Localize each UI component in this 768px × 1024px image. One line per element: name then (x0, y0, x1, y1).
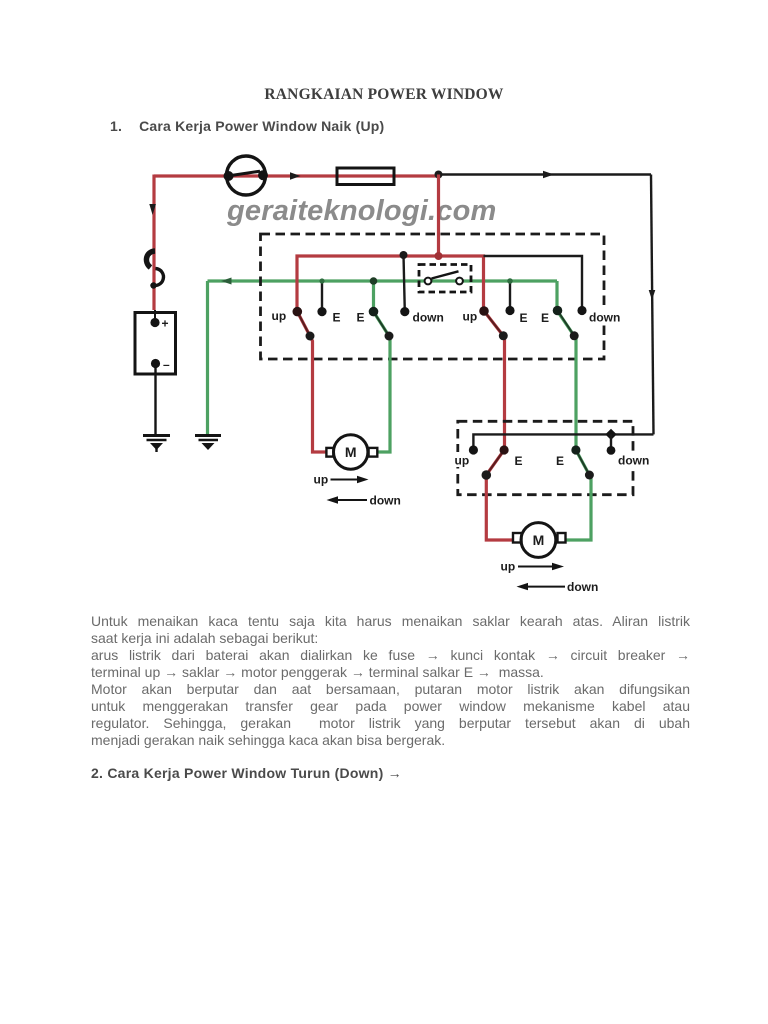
wire: red feed from battery to key switch (top horizontal) (154, 174, 439, 177)
svg-text:M: M (533, 532, 545, 548)
dash gap for label (630, 451, 638, 467)
svg-text:E: E (515, 454, 523, 468)
svg-text:up: up (314, 473, 329, 487)
label down with left arrow (motor M1) (327, 494, 401, 508)
key switch (kunci kontak) (224, 156, 269, 195)
svg-text:down: down (589, 311, 620, 325)
down contact (right group) (577, 306, 586, 315)
motor M2 right terminal (558, 533, 566, 543)
title (0, 86, 768, 104)
wire: black top horizontal to right (439, 173, 652, 175)
svg-text:E: E (357, 311, 365, 325)
heading 2 (91, 765, 402, 781)
dash gap for label (601, 308, 608, 325)
motor M1 right terminal (369, 448, 378, 457)
junction node at top feed split (435, 171, 443, 179)
motor M1 (334, 435, 368, 469)
fuse (337, 168, 394, 185)
motor M2 (521, 523, 556, 558)
svg-text:E: E (520, 311, 528, 325)
switch up panel 2: red arm (482, 445, 513, 540)
junction node red feed on bus (435, 252, 443, 260)
master switch box (dashed) (419, 265, 471, 293)
up contact (panel 2) (469, 445, 478, 454)
svg-text:up: up (501, 560, 516, 574)
junction node black on red bus (left down) (400, 251, 408, 259)
junction node (panel 2 down stub) (605, 429, 616, 451)
switch panel 1 (dashed) (261, 234, 605, 359)
wire: green ground vertical (206, 281, 209, 436)
switch panel 2 (dashed) (458, 421, 633, 494)
svg-text:down: down (618, 454, 649, 468)
battery (135, 310, 176, 374)
E contact stub (left group) (317, 278, 326, 316)
svg-text:down: down (413, 311, 444, 325)
ground (battery) (143, 436, 170, 453)
label up with right arrow (motor M2) (501, 560, 565, 574)
label up with right arrow (motor M1) (314, 473, 369, 487)
arrowhead down on right black vertical (649, 290, 656, 300)
wire: green bus horizontal (208, 279, 558, 282)
svg-text:E: E (541, 311, 549, 325)
wire: red bus in panel (297, 256, 484, 312)
svg-text:down: down (370, 494, 401, 508)
arrowhead down on left red wire (149, 204, 156, 215)
dash gap for label (455, 452, 462, 467)
motor M2 left terminal (513, 533, 522, 543)
paragraph text (91, 613, 690, 749)
down contact (panel 2) (607, 446, 616, 455)
svg-text:up: up (455, 454, 470, 468)
watermark geraiteknologi.com (227, 197, 497, 226)
wire: black right vertical (651, 175, 654, 435)
wire: red left vertical down to battery (152, 175, 155, 311)
down contact (left group) (400, 307, 409, 316)
svg-text:down: down (567, 580, 598, 594)
svg-text:up: up (463, 310, 478, 324)
circuit breaker (146, 251, 163, 289)
wire: black bus segment to right down contact (484, 256, 583, 311)
switch E left: green arm (369, 277, 394, 452)
label down with left arrow (motor M2) (517, 580, 599, 594)
wire: black feed inside panel 2 (473, 434, 653, 450)
switch E right: green arm (553, 281, 579, 450)
wire: red vertical feed to switch panel (437, 175, 440, 258)
svg-text:up: up (272, 309, 287, 323)
switch E panel 2: green arm (566, 445, 594, 540)
arrowhead right on red wire after key switch (290, 172, 301, 179)
svg-text:E: E (556, 454, 564, 468)
arrowhead left on green bus (221, 278, 232, 285)
heading 1 (110, 118, 384, 134)
E contact stub (right group) (505, 278, 514, 315)
arrowhead right on top black wire (543, 171, 554, 178)
wire: battery negative to ground (154, 364, 156, 437)
wire: black stub to left down contact (404, 255, 405, 312)
svg-text:E: E (333, 311, 341, 325)
svg-text:+: + (162, 317, 169, 331)
svg-text:M: M (345, 444, 357, 460)
switch up right: red arm (479, 306, 508, 450)
switch up left: red arm (293, 307, 328, 452)
motor M1 left terminal (326, 448, 333, 457)
svg-text:–: – (163, 358, 170, 372)
ground (green wire) (195, 436, 221, 451)
